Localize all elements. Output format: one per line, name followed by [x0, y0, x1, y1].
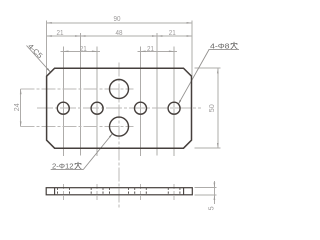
- svg-text:48: 48: [116, 28, 123, 37]
- svg-text:21: 21: [57, 28, 64, 37]
- svg-text:50: 50: [207, 104, 216, 112]
- svg-text:24: 24: [12, 103, 21, 111]
- svg-text:90: 90: [114, 14, 121, 23]
- svg-text:5: 5: [207, 206, 216, 210]
- svg-text:21: 21: [169, 28, 176, 37]
- svg-text:21: 21: [80, 44, 87, 53]
- svg-text:21: 21: [147, 44, 154, 53]
